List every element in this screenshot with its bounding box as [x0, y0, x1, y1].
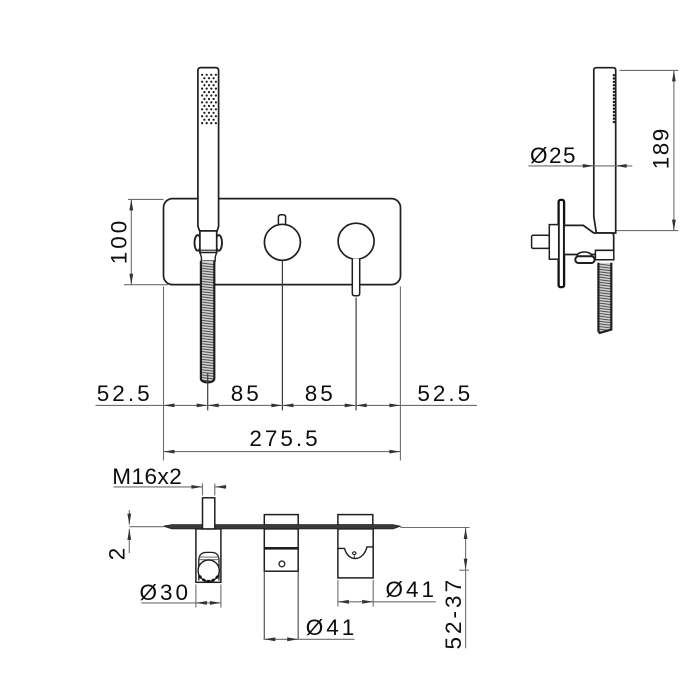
plan view: knurl dashes on boss — [200, 576, 218, 581]
hand shower handle (front) — [198, 68, 219, 231]
svg-text:52.5: 52.5 — [97, 381, 153, 406]
dimension 100: extension lines — [124, 199, 168, 284]
hand shower spray face dots (front) — [201, 74, 217, 124]
hand shower holder body (front) — [200, 231, 217, 253]
dimension D41 (right body) — [337, 580, 339, 607]
dimension 189: extension lines — [617, 70, 679, 230]
side view: water inlet nipple — [532, 235, 550, 248]
plan view: valve bonnet (right, above plate) — [338, 515, 373, 526]
plan view: middle body lower part — [263, 571, 265, 639]
hand shower holder clips (front) — [195, 235, 201, 251]
hose connector nut (front) — [200, 253, 217, 261]
extension line: plate right edge — [399, 287, 401, 461]
side view: hand shower handle — [594, 68, 616, 233]
plan view: D30 boss circle — [198, 560, 219, 581]
side view: spray nozzles dots — [613, 74, 615, 123]
extension line: plate left edge — [163, 287, 165, 461]
plan view: middle in-wall valve body — [264, 529, 298, 571]
dimension 2 (plate thickness) — [128, 510, 130, 525]
svg-text:52.5: 52.5 — [417, 381, 473, 406]
side view: hose retaining clip dome — [577, 252, 592, 256]
plan view: right in-wall valve body — [338, 529, 373, 578]
dimension 100: dimension line with arrows — [130, 199, 132, 284]
plan view: left body inner dome — [199, 552, 219, 580]
dimension 52-37 — [400, 527, 469, 529]
svg-text:275.5: 275.5 — [249, 426, 320, 451]
mixer lever handle — [352, 259, 359, 296]
side view: wall plate (edge-on) — [559, 200, 565, 287]
front view: wall mounting plate — [164, 199, 401, 285]
plan view: mounting plate strip — [164, 525, 401, 529]
side view: hose retaining clip pill — [575, 256, 594, 263]
dimension 275.5 — [164, 451, 401, 453]
plan view: left in-wall body — [196, 529, 221, 582]
svg-text:Ø25: Ø25 — [530, 143, 577, 168]
svg-text:52-37: 52-37 — [441, 577, 466, 650]
svg-text:Ø41: Ø41 — [306, 615, 358, 640]
svg-text:Ø30: Ø30 — [140, 580, 192, 605]
svg-text:85: 85 — [231, 381, 262, 406]
side view: holder body — [564, 225, 614, 254]
svg-text:189: 189 — [648, 127, 673, 169]
mixer knob (front right) — [338, 223, 374, 259]
svg-text:M16x2: M16x2 — [112, 464, 182, 489]
svg-text:Ø41: Ø41 — [386, 577, 438, 602]
dimension row 52.5 / 85 / 85 / 52.5 — [96, 404, 478, 406]
diverter knob (front left) — [278, 215, 285, 225]
side view: hose connector nut — [595, 250, 613, 259]
dimension 189: dimension line — [673, 70, 675, 230]
svg-text:100: 100 — [107, 218, 132, 265]
mixer lever centerline — [355, 298, 357, 411]
flexible hose (front, corrugated) — [201, 261, 214, 383]
plan view: lever arc (seen from above) — [338, 547, 373, 559]
diverter knob centerline — [281, 260, 283, 410]
plan view: M16x2 threaded nipple — [203, 498, 215, 529]
dimension D41 (middle body) — [263, 638, 354, 640]
dimension D25: line and arrows — [528, 165, 632, 167]
svg-text:2: 2 — [105, 545, 130, 561]
svg-text:85: 85 — [305, 381, 336, 406]
dimension D30 — [195, 585, 197, 608]
side view: flexible hose (corrugated) — [598, 263, 611, 333]
extension line: hose center — [207, 374, 209, 411]
plan view: valve bonnet (middle, above plate) — [264, 515, 298, 526]
